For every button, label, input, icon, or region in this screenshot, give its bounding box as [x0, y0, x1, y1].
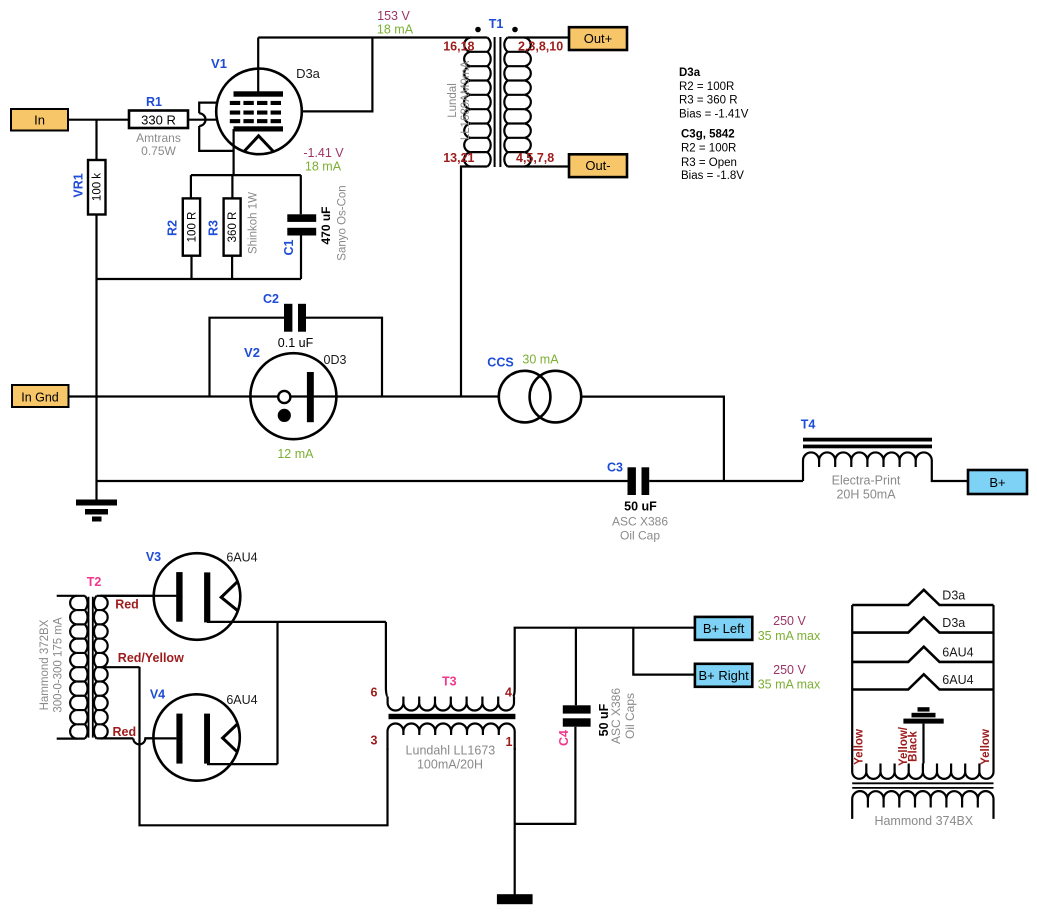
- choke T4 winding: [802, 467, 804, 481]
- svg-text:35 mA max: 35 mA max: [758, 678, 821, 692]
- svg-text:Shinkoh 1W: Shinkoh 1W: [248, 192, 260, 254]
- wire R1 to V1 grid: [188, 119, 217, 121]
- svg-text:35 mA max: 35 mA max: [758, 629, 821, 643]
- transformer T3 core: [389, 714, 516, 719]
- svg-text:T2: T2: [87, 575, 102, 589]
- svg-text:20H 50mA: 20H 50mA: [836, 488, 896, 502]
- transformer T1 secondary winding: [508, 36, 569, 38]
- capacitor C1: [282, 175, 349, 279]
- V1 envelope circle: [216, 69, 302, 155]
- svg-text:153 V: 153 V: [377, 9, 410, 23]
- svg-text:B+ Right: B+ Right: [698, 668, 749, 683]
- heater winding 374BX secondary: [852, 764, 993, 779]
- svg-text:18 mA: 18 mA: [305, 160, 342, 174]
- tube V1: [199, 38, 372, 176]
- terminal B+: [968, 470, 1027, 494]
- wire to B+ Right: [633, 628, 695, 675]
- terminal Out-: [569, 154, 627, 177]
- heater winding 374BX primary: [852, 791, 993, 807]
- svg-text:Hammond 374BX: Hammond 374BX: [874, 814, 973, 828]
- svg-text:V3: V3: [146, 550, 161, 564]
- transformer T1 core: [495, 37, 501, 167]
- capacitor C4 bottom wire: [515, 727, 576, 824]
- V2 anode bar: [307, 372, 314, 422]
- heater ground stem: [922, 724, 924, 764]
- svg-text:Amtrans: Amtrans: [136, 131, 181, 145]
- svg-text:R3 = 360 R: R3 = 360 R: [679, 95, 738, 107]
- transformer T3 lower winding: [388, 724, 515, 736]
- svg-text:R2 = 100R: R2 = 100R: [679, 81, 734, 93]
- svg-text:ASC X386: ASC X386: [609, 688, 623, 744]
- svg-text:D3a: D3a: [679, 67, 701, 79]
- svg-text:Lundahl LL1673: Lundahl LL1673: [406, 744, 496, 758]
- svg-text:Red: Red: [113, 725, 137, 739]
- svg-text:In Gnd: In Gnd: [21, 391, 59, 405]
- svg-text:Lundal: Lundal: [447, 83, 459, 118]
- capacitor C4 top wire: [575, 628, 577, 706]
- wire junction to VR1: [95, 120, 97, 160]
- chassis ground bar: [497, 894, 533, 904]
- ground rail left: [97, 480, 628, 482]
- svg-text:Oil Caps: Oil Caps: [623, 693, 637, 739]
- svg-text:In: In: [34, 113, 45, 128]
- V4 cathode wire: [207, 763, 278, 765]
- V3 cathode chevron: [221, 582, 237, 611]
- potentiometer VR1: [71, 160, 105, 215]
- V2 cathode dot: [278, 409, 291, 422]
- svg-text:Out-: Out-: [585, 158, 610, 173]
- wire joining V3 V4 cathodes: [276, 622, 278, 764]
- svg-text:Sanyo Os-Con: Sanyo Os-Con: [337, 185, 349, 260]
- transformer T1 primary winding: [471, 52, 488, 152]
- svg-text:16,18: 16,18: [443, 40, 474, 54]
- network bottom rail: [97, 278, 302, 280]
- terminal Out+: [569, 27, 627, 50]
- wire hop over centre tap: [133, 738, 154, 744]
- svg-text:R3 = Open: R3 = Open: [681, 157, 737, 169]
- heater winding 374BX core: [852, 783, 993, 788]
- info text D3a block: [679, 67, 749, 121]
- svg-text:4: 4: [505, 686, 512, 700]
- heater ladder right rail: [992, 605, 994, 764]
- CCS current source: [487, 353, 581, 423]
- svg-text:2,3,8,10: 2,3,8,10: [518, 40, 563, 54]
- ground rail right: [649, 480, 803, 482]
- svg-text:3: 3: [371, 734, 378, 748]
- svg-text:Yellow: Yellow: [853, 729, 865, 765]
- svg-text:Electra-Print: Electra-Print: [832, 474, 901, 488]
- wire CCS to C3 node: [581, 397, 724, 481]
- V1 grid dashes: [230, 101, 281, 123]
- svg-text:C3: C3: [607, 461, 623, 475]
- T1 phase dot right: [512, 27, 518, 33]
- svg-text:Red: Red: [115, 598, 139, 612]
- diode V4: [145, 688, 277, 781]
- terminal In: [11, 109, 68, 131]
- V1 plate wire right: [301, 38, 373, 112]
- svg-text:T4: T4: [801, 418, 816, 432]
- svg-text:C4: C4: [557, 730, 571, 746]
- svg-text:C3g, 5842: C3g, 5842: [681, 128, 735, 140]
- heater rung D3a 1: [852, 590, 993, 605]
- resistor R3: [207, 175, 260, 279]
- svg-text:360 R: 360 R: [227, 212, 239, 243]
- transformer T2 core: [89, 597, 93, 738]
- svg-text:250 V: 250 V: [773, 614, 806, 628]
- V4 plate input wire: [145, 737, 176, 739]
- svg-text:100 k: 100 k: [92, 173, 104, 201]
- resistor R1: [129, 95, 188, 158]
- svg-text:0D3: 0D3: [324, 353, 347, 367]
- svg-text:R2 = 100R: R2 = 100R: [681, 143, 736, 155]
- heater ladder left rail: [851, 605, 853, 764]
- V1 filament: [244, 136, 273, 152]
- svg-text:CCS: CCS: [487, 356, 513, 370]
- svg-text:C1: C1: [282, 239, 296, 255]
- svg-text:4,5,7,8: 4,5,7,8: [516, 151, 554, 165]
- svg-text:D3a: D3a: [296, 66, 321, 81]
- svg-text:R1: R1: [146, 95, 162, 109]
- wire anode to T1: [258, 36, 487, 38]
- svg-text:T1: T1: [489, 17, 504, 31]
- transformer T2 primary winding: [57, 595, 85, 597]
- V1 cathode bar: [234, 126, 284, 131]
- svg-text:470 uF: 470 uF: [319, 206, 333, 244]
- svg-text:VR1: VR1: [71, 173, 85, 197]
- svg-text:V1: V1: [211, 56, 227, 71]
- svg-text:Hammond 372BX: Hammond 372BX: [39, 619, 51, 710]
- terminal In Gnd: [12, 385, 69, 407]
- V3 cathode wire: [207, 621, 386, 623]
- svg-text:-1.41 V: -1.41 V: [303, 146, 344, 160]
- svg-text:D3a: D3a: [942, 589, 965, 603]
- svg-text:ASC X386: ASC X386: [612, 515, 668, 529]
- V4 cathode chevron: [223, 724, 238, 752]
- svg-text:C2: C2: [263, 292, 279, 306]
- svg-text:1: 1: [506, 735, 513, 749]
- svg-text:250 V: 250 V: [773, 663, 806, 677]
- svg-text:Black: Black: [908, 731, 920, 762]
- V3 plate input wire: [100, 595, 176, 597]
- ground symbol: [76, 500, 117, 522]
- svg-text:330 R: 330 R: [141, 113, 176, 128]
- svg-text:R3: R3: [207, 220, 221, 236]
- heater ground symbol: [903, 707, 943, 723]
- resistor R2: [166, 175, 201, 279]
- V1 anode bar: [234, 91, 284, 96]
- svg-text:Yellow: Yellow: [980, 729, 992, 765]
- heater rung 6AU4 2: [852, 674, 993, 689]
- wire T3 pin 4 to B+ Left: [513, 628, 695, 697]
- svg-text:B+ Left: B+ Left: [703, 621, 745, 636]
- heater rung 6AU4 1: [852, 647, 993, 662]
- svg-text:6: 6: [371, 686, 378, 700]
- regulator tube V2: [244, 345, 346, 461]
- svg-text:V4: V4: [150, 688, 165, 702]
- svg-text:50 uF: 50 uF: [624, 500, 657, 514]
- svg-text:Bias = -1.8V: Bias = -1.8V: [681, 170, 744, 182]
- svg-text:100mA/20H: 100mA/20H: [417, 758, 483, 772]
- V1 grid bracket: [199, 103, 233, 151]
- svg-text:6AU4: 6AU4: [226, 551, 257, 565]
- capacitor C2: [263, 292, 314, 350]
- terminal B+ Left: [695, 617, 752, 640]
- svg-text:Oil Cap: Oil Cap: [620, 529, 660, 543]
- svg-text:13,21: 13,21: [443, 151, 474, 165]
- svg-text:LL1689AM9mA: LL1689AM9mA: [460, 61, 472, 141]
- centre tap wire to T3 pin 3: [140, 667, 388, 825]
- svg-text:Bias = -1.41V: Bias = -1.41V: [679, 109, 749, 121]
- svg-text:0.75W: 0.75W: [141, 144, 176, 158]
- svg-text:D3a: D3a: [942, 616, 965, 630]
- svg-text:R2: R2: [166, 220, 180, 236]
- svg-text:V2: V2: [244, 345, 260, 360]
- svg-text:T3: T3: [442, 675, 457, 689]
- transformer T2 secondary upper winding: [97, 595, 154, 597]
- transformer T3 upper winding: [386, 622, 388, 697]
- cathode network top rail: [191, 174, 301, 176]
- capacitor C3: [607, 461, 668, 543]
- wire T3 pin 1 to ground: [514, 748, 516, 895]
- svg-text:Red/Yellow: Red/Yellow: [118, 651, 184, 665]
- diode V3: [100, 550, 386, 640]
- choke T4 core: [803, 438, 932, 449]
- T1 phase dot left: [475, 27, 481, 33]
- info text C3g block: [681, 128, 744, 182]
- wire In to R1: [68, 119, 129, 121]
- svg-text:6AU4: 6AU4: [942, 645, 973, 659]
- heater rung D3a 2: [852, 617, 993, 632]
- V1 anode wire up: [257, 38, 259, 95]
- V1 cathode wire down: [233, 129, 235, 175]
- svg-text:0.1 uF: 0.1 uF: [278, 336, 314, 350]
- svg-text:300-0-300 175 mA: 300-0-300 175 mA: [53, 617, 65, 713]
- svg-text:B+: B+: [989, 475, 1005, 490]
- transformer T2 secondary lower winding: [97, 681, 101, 724]
- capacitor C2 bracket wires: [210, 318, 383, 397]
- svg-text:100 R: 100 R: [187, 212, 199, 243]
- svg-text:18 mA: 18 mA: [377, 23, 414, 37]
- svg-text:12 mA: 12 mA: [277, 447, 314, 461]
- V2 starter electrode: [278, 391, 290, 403]
- svg-text:6AU4: 6AU4: [226, 693, 257, 707]
- capacitor C4: [557, 688, 637, 746]
- main rail In Gnd to CCS: [69, 395, 499, 397]
- svg-text:Out+: Out+: [584, 31, 613, 46]
- wire VR1 down to ground: [95, 215, 97, 501]
- terminal B+ Right: [695, 664, 752, 687]
- svg-text:6AU4: 6AU4: [942, 673, 973, 687]
- svg-text:30 mA: 30 mA: [522, 353, 559, 367]
